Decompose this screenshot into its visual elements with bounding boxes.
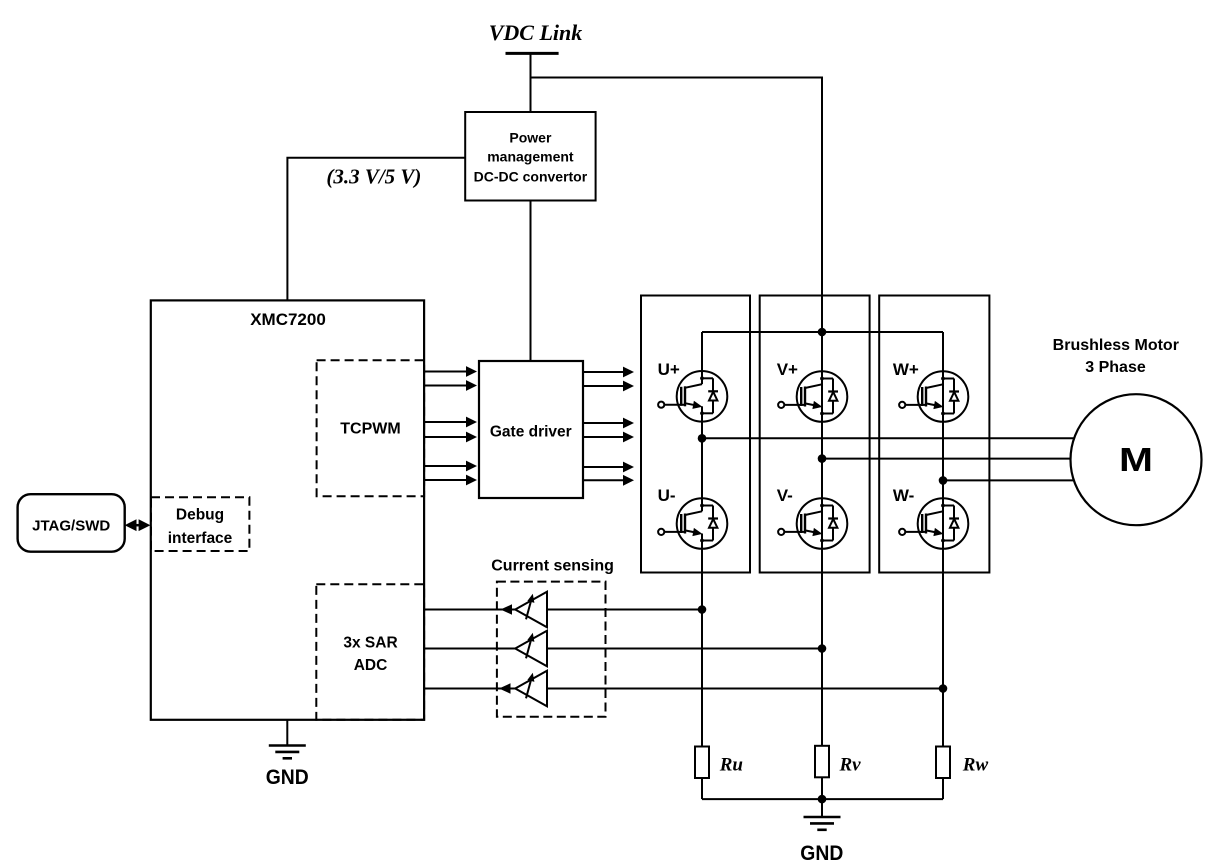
node sense V junction bbox=[818, 644, 827, 653]
svg-text:W-: W- bbox=[893, 486, 914, 505]
wire phase V to motor bbox=[822, 458, 1095, 460]
svg-text:Rv: Rv bbox=[839, 755, 862, 776]
current sense amplifier 3 bbox=[515, 671, 547, 707]
svg-text:V+: V+ bbox=[777, 360, 798, 379]
transistor W- (IGBT with diode) bbox=[899, 498, 968, 549]
current sense amplifier 2 bbox=[515, 631, 547, 667]
resistor Rv bbox=[815, 746, 829, 778]
wire ground bus bbox=[702, 798, 943, 800]
svg-text:management: management bbox=[487, 149, 574, 165]
svg-text:W+: W+ bbox=[893, 360, 919, 379]
svg-text:U-: U- bbox=[658, 486, 676, 505]
node phase U bbox=[698, 434, 707, 443]
node DC bus junction at V bbox=[818, 328, 827, 337]
svg-text:Gate driver: Gate driver bbox=[490, 424, 572, 441]
svg-text:Brushless Motor: Brushless Motor bbox=[1053, 337, 1179, 354]
wire W column bbox=[942, 332, 944, 747]
JTAG double-headed arrow bbox=[125, 519, 151, 531]
node sense U junction bbox=[698, 605, 707, 614]
node sense W junction bbox=[939, 684, 948, 693]
node phase W bbox=[939, 476, 948, 485]
inverter leg U box bbox=[641, 296, 750, 573]
VDC Link terminal bar bbox=[506, 52, 559, 55]
wire VDC bar to power management box bbox=[530, 53, 532, 112]
TCPWM to gate driver arrows (6) bbox=[425, 366, 477, 377]
svg-text:Rw: Rw bbox=[962, 755, 989, 776]
transistor U+ (IGBT with diode) bbox=[658, 371, 727, 422]
svg-text:V-: V- bbox=[777, 486, 793, 505]
svg-text:Debug: Debug bbox=[176, 507, 224, 524]
svg-text:ADC: ADC bbox=[354, 657, 388, 674]
svg-text:Ru: Ru bbox=[719, 755, 743, 776]
svg-text:3 Phase: 3 Phase bbox=[1085, 359, 1146, 376]
svg-text:VDC Link: VDC Link bbox=[489, 20, 583, 45]
TCPWM dashed block bbox=[317, 360, 425, 496]
svg-text:M: M bbox=[1119, 441, 1153, 478]
wire power box to XMC7200 bbox=[287, 158, 465, 301]
wire sense line U to ADC bbox=[424, 609, 702, 611]
svg-text:U+: U+ bbox=[658, 360, 680, 379]
svg-text:3x SAR: 3x SAR bbox=[343, 635, 397, 652]
motor M circle bbox=[1071, 394, 1202, 525]
Debug interface dashed block bbox=[151, 497, 249, 551]
svg-text:DC-DC convertor: DC-DC convertor bbox=[474, 169, 588, 185]
transistor U- (IGBT with diode) bbox=[658, 498, 727, 549]
wire sense line V to ADC bbox=[424, 648, 822, 650]
svg-text:(3.3 V/5 V): (3.3 V/5 V) bbox=[326, 165, 421, 189]
transistor V- (IGBT with diode) bbox=[778, 498, 847, 549]
wire U column middle bbox=[701, 422, 703, 499]
gate driver box bbox=[479, 361, 583, 498]
svg-text:Current sensing: Current sensing bbox=[491, 558, 614, 575]
wire U column lower bbox=[701, 549, 703, 747]
resistor Rw bbox=[936, 747, 950, 779]
svg-text:GND: GND bbox=[266, 766, 309, 789]
wire Ru to ground bus bbox=[701, 778, 703, 799]
svg-text:interface: interface bbox=[168, 530, 233, 547]
svg-text:TCPWM: TCPWM bbox=[340, 421, 400, 438]
transistor V+ (IGBT with diode) bbox=[778, 371, 847, 422]
wire phase U to motor bbox=[702, 437, 1095, 439]
svg-text:GND: GND bbox=[800, 842, 843, 865]
wire U column upper bbox=[701, 332, 703, 371]
inverter leg V box bbox=[760, 296, 870, 573]
node ground bus junction bbox=[818, 795, 827, 804]
wire Rw to ground bus bbox=[942, 778, 944, 799]
current sensing dashed block bbox=[497, 582, 606, 717]
ground symbol bottom bbox=[821, 799, 823, 817]
current sense amplifier 1 bbox=[515, 592, 547, 628]
wire VDC branch to inverter V column bbox=[531, 78, 823, 333]
JTAG/SWD box bbox=[18, 494, 125, 552]
node phase V bbox=[818, 454, 827, 463]
power management DC-DC convertor box bbox=[465, 112, 595, 201]
wire DC bus top rail bbox=[702, 331, 943, 333]
3x SAR ADC dashed block bbox=[316, 584, 424, 720]
gate driver to inverter arrows (6) bbox=[582, 367, 634, 378]
wire phase W to motor bbox=[943, 479, 1095, 481]
ground symbol under XMC7200 bbox=[286, 720, 288, 746]
wire Rv to ground bus bbox=[821, 777, 823, 799]
transistor W+ (IGBT with diode) bbox=[899, 371, 968, 422]
resistor Ru bbox=[695, 747, 709, 779]
wire V column bbox=[821, 332, 823, 746]
wire sense line W to ADC bbox=[424, 688, 943, 690]
wire power box to gate driver bbox=[530, 201, 532, 362]
svg-text:JTAG/SWD: JTAG/SWD bbox=[32, 518, 110, 535]
inverter leg W box bbox=[879, 296, 989, 573]
svg-text:XMC7200: XMC7200 bbox=[250, 310, 326, 329]
svg-text:Power: Power bbox=[509, 130, 552, 146]
MCU XMC7200 box bbox=[151, 300, 424, 719]
